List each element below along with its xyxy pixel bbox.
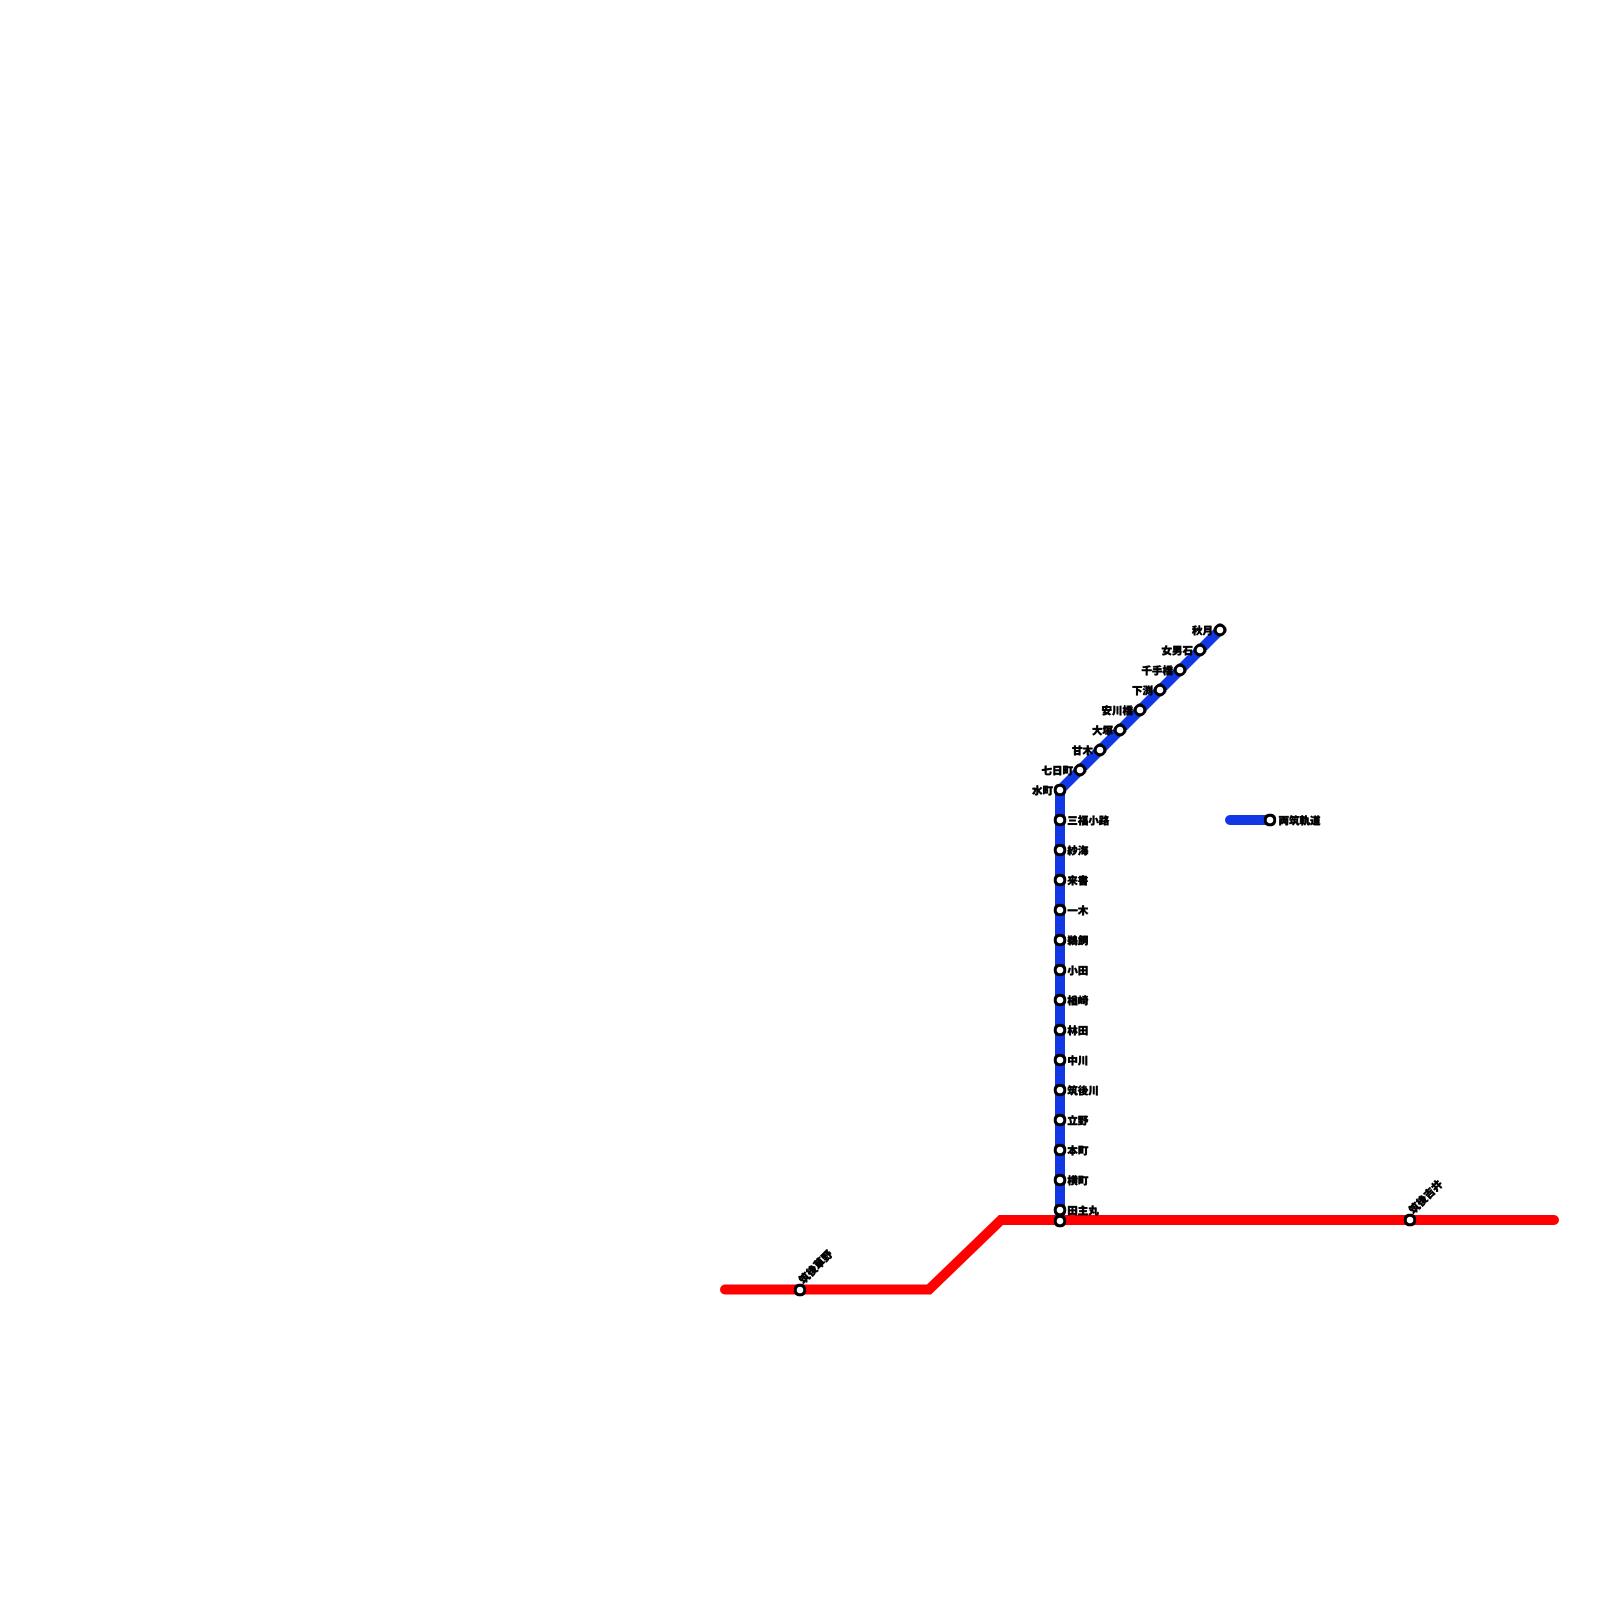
label 大塚 <box>1092 725 1113 735</box>
station marker 筑後川 <box>1054 1084 1066 1096</box>
station marker 林田 <box>1054 1024 1066 1036</box>
label 水町 <box>1032 785 1053 795</box>
station marker 女男石 <box>1191 641 1208 658</box>
blue line Ryochiku Kido vertical segment <box>1055 792 1065 1221</box>
station marker 楢崎 <box>1054 994 1066 1006</box>
station marker 三福小路 <box>1054 814 1066 826</box>
legend line sample <box>1230 815 1266 825</box>
label 小田 <box>1068 966 1088 976</box>
station marker 本町 <box>1054 1144 1066 1156</box>
station marker 千手橋 <box>1171 661 1188 678</box>
label 筑後吉井 <box>1407 1179 1444 1216</box>
label 来書 <box>1068 875 1088 885</box>
label 田主丸 <box>1068 1205 1099 1215</box>
label 中川 <box>1068 1055 1087 1065</box>
label 甘木 <box>1072 745 1093 755</box>
red line Kyudai Main Line <box>725 1220 1554 1290</box>
label 女男石 <box>1162 645 1193 655</box>
station marker 秋月 <box>1211 621 1228 638</box>
station marker 筑後草野 <box>794 1284 806 1296</box>
station marker 中川 <box>1054 1054 1066 1066</box>
station marker 安川橋 <box>1131 701 1148 718</box>
station marker 鵜飼 <box>1054 934 1066 946</box>
station marker 一木 <box>1054 904 1066 916</box>
label 楢崎 <box>1068 995 1089 1005</box>
station marker 来書 <box>1054 874 1066 886</box>
label 安川橋 <box>1102 705 1133 715</box>
label 横町 <box>1068 1175 1089 1185</box>
label 林田 <box>1068 1025 1088 1035</box>
station marker 大塚 <box>1111 721 1128 738</box>
label legend 両筑軌道 <box>1279 815 1320 825</box>
blue line Ryochiku Kido diagonal segment <box>1061 628 1223 790</box>
station marker 下渕 <box>1151 681 1168 698</box>
station marker 横町 <box>1054 1174 1066 1186</box>
label 立野 <box>1068 1115 1088 1125</box>
station marker 筑後吉井 <box>1404 1214 1416 1226</box>
station marker junction 田主丸 <box>1054 1215 1066 1227</box>
label 本町 <box>1067 1145 1088 1155</box>
station marker 立野 <box>1054 1114 1066 1126</box>
station marker 甘木 <box>1091 741 1108 758</box>
station marker 小田 <box>1054 964 1066 976</box>
label 三福小路 <box>1068 815 1109 825</box>
station marker 田主丸 <box>1054 1204 1066 1216</box>
label 筑後川 <box>1067 1085 1097 1095</box>
station marker 紗海 <box>1054 844 1066 856</box>
label 千手橋 <box>1142 665 1173 675</box>
label 筑後草野 <box>797 1249 834 1286</box>
station marker 七日町 <box>1071 761 1088 778</box>
label 紗海 <box>1067 845 1088 855</box>
label 七日町 <box>1042 766 1073 776</box>
station marker 水町 <box>1054 784 1066 796</box>
station marker legend <box>1264 814 1276 826</box>
label 秋月 <box>1192 626 1211 636</box>
label 鵜飼 <box>1067 935 1087 945</box>
label 一木 <box>1068 905 1089 915</box>
label 下渕 <box>1133 685 1153 695</box>
